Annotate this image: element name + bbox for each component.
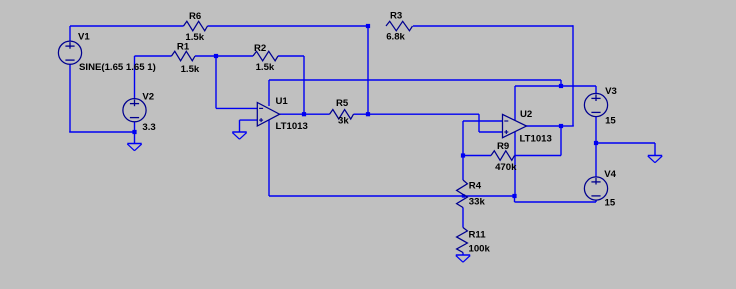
junction node [366, 24, 370, 28]
label R1 [177, 41, 190, 52]
wire [514, 86, 516, 121]
op-amp U1 [257, 103, 279, 127]
svg-text:R11: R11 [469, 230, 487, 241]
svg-text:SINE(1.65 1.65 1): SINE(1.65 1.65 1) [79, 62, 156, 73]
junction node [461, 153, 465, 157]
ground [232, 132, 246, 139]
svg-text:1.5k: 1.5k [181, 64, 200, 75]
value 3.3 (V2) [142, 122, 155, 133]
wire [515, 155, 562, 157]
svg-text:R2: R2 [254, 43, 266, 54]
wire [354, 113, 369, 115]
value 1.5k (R2) [256, 62, 275, 73]
junction node [302, 112, 306, 116]
label V2 [142, 92, 154, 103]
wire [463, 155, 491, 157]
wire [268, 120, 270, 196]
svg-text:15: 15 [605, 198, 616, 209]
wire [134, 56, 136, 99]
wire [572, 25, 574, 126]
label R5 [336, 98, 349, 109]
wire [135, 55, 172, 57]
wire [595, 200, 597, 202]
junction node [462, 194, 465, 197]
svg-text:LT1013: LT1013 [520, 134, 552, 145]
value 15 (V4) [605, 198, 616, 209]
wire [595, 86, 597, 94]
voltage source V1 [58, 41, 81, 64]
label V3 [605, 86, 617, 97]
junction node [214, 54, 218, 58]
wire [526, 125, 561, 127]
svg-text:R1: R1 [177, 41, 190, 52]
wire [279, 113, 304, 115]
resistor R3 [386, 21, 413, 31]
svg-text:100k: 100k [469, 244, 491, 255]
wire [560, 80, 562, 86]
junction node [559, 84, 563, 88]
resistor R4 [457, 180, 468, 208]
value 33k (R4) [469, 197, 486, 208]
svg-text:R5: R5 [336, 98, 349, 109]
label R4 [469, 181, 482, 192]
wire [515, 85, 596, 87]
wire [269, 79, 561, 81]
junction node [594, 141, 598, 145]
wire [69, 64, 71, 132]
svg-text:R3: R3 [390, 11, 402, 22]
svg-text:470k: 470k [495, 162, 517, 173]
value 100k (R11) [469, 244, 491, 255]
wire [654, 143, 656, 156]
wire [240, 119, 258, 121]
wire [478, 114, 480, 132]
resistor R1 [172, 51, 196, 61]
svg-text:15: 15 [605, 115, 616, 126]
wire [304, 113, 330, 115]
wire [215, 56, 217, 108]
wire [560, 125, 562, 155]
value SINE(1.65 1.65 1) (V1) [79, 62, 156, 73]
wire [367, 26, 369, 114]
value 1.5k (R6) [185, 32, 204, 43]
wire [462, 156, 464, 181]
label R3 [390, 11, 402, 22]
wire [595, 117, 597, 144]
svg-text:3.3: 3.3 [142, 122, 155, 133]
wire [239, 120, 241, 132]
wire [208, 25, 369, 27]
label R11 [469, 230, 487, 241]
wire [462, 208, 464, 228]
wire [195, 55, 253, 57]
svg-text:33k: 33k [469, 197, 486, 208]
wire [462, 121, 464, 156]
wire [561, 125, 574, 127]
label V1 [78, 32, 90, 43]
value 15 (V3) [605, 115, 616, 126]
voltage source V3 [584, 93, 607, 116]
voltage source V4 [584, 177, 607, 200]
wire [303, 56, 305, 114]
resistor R9 [491, 151, 515, 161]
resistor R6 [184, 21, 208, 31]
svg-text:U2: U2 [520, 109, 532, 120]
wire [514, 196, 516, 202]
resistor R11 [457, 228, 468, 253]
wire [596, 142, 655, 144]
wire [515, 201, 597, 203]
value 1.5k (R1) [181, 64, 200, 75]
value 6.8k (R3) [386, 32, 405, 43]
junction node [366, 112, 370, 116]
svg-text:V2: V2 [142, 92, 154, 103]
value LT1013 (U1) [276, 121, 308, 132]
label V4 [604, 169, 616, 180]
ground [648, 156, 662, 163]
wire [368, 113, 479, 115]
label R2 [254, 43, 266, 54]
junction node [132, 130, 136, 134]
resistor R5 [330, 110, 354, 120]
value 3k (R5) [338, 116, 349, 127]
svg-text:R4: R4 [469, 181, 482, 192]
wire [268, 80, 270, 106]
svg-text:6.8k: 6.8k [386, 32, 405, 43]
svg-text:R6: R6 [189, 11, 201, 22]
wire [269, 195, 515, 197]
label U2 [520, 109, 532, 120]
svg-text:V1: V1 [78, 32, 90, 43]
svg-text:1.5k: 1.5k [256, 62, 275, 73]
wire [70, 25, 184, 27]
label R6 [189, 11, 201, 22]
wire [514, 132, 516, 197]
junction node [512, 194, 516, 198]
voltage source V2 [123, 99, 146, 122]
wire [479, 131, 503, 133]
wire [462, 253, 464, 256]
wire [595, 143, 597, 177]
ground [456, 255, 470, 262]
op-amp U2 [503, 114, 527, 137]
svg-text:U1: U1 [276, 96, 289, 107]
value LT1013 (U2) [520, 134, 552, 145]
wire [134, 122, 136, 144]
wire [278, 55, 304, 57]
wire [463, 120, 503, 122]
label U1 [276, 96, 289, 107]
svg-text:V4: V4 [604, 169, 616, 180]
wire [69, 26, 71, 41]
junction node [559, 124, 563, 128]
label R9 [497, 141, 509, 152]
svg-text:3k: 3k [338, 116, 349, 127]
svg-text:V3: V3 [605, 86, 617, 97]
ground [127, 144, 141, 151]
resistor R2 [253, 51, 278, 61]
svg-text:LT1013: LT1013 [276, 121, 308, 132]
value 470k (R9) [495, 162, 517, 173]
wire [69, 131, 134, 133]
svg-text:R9: R9 [497, 141, 509, 152]
wire [413, 25, 573, 27]
wire [216, 107, 257, 109]
